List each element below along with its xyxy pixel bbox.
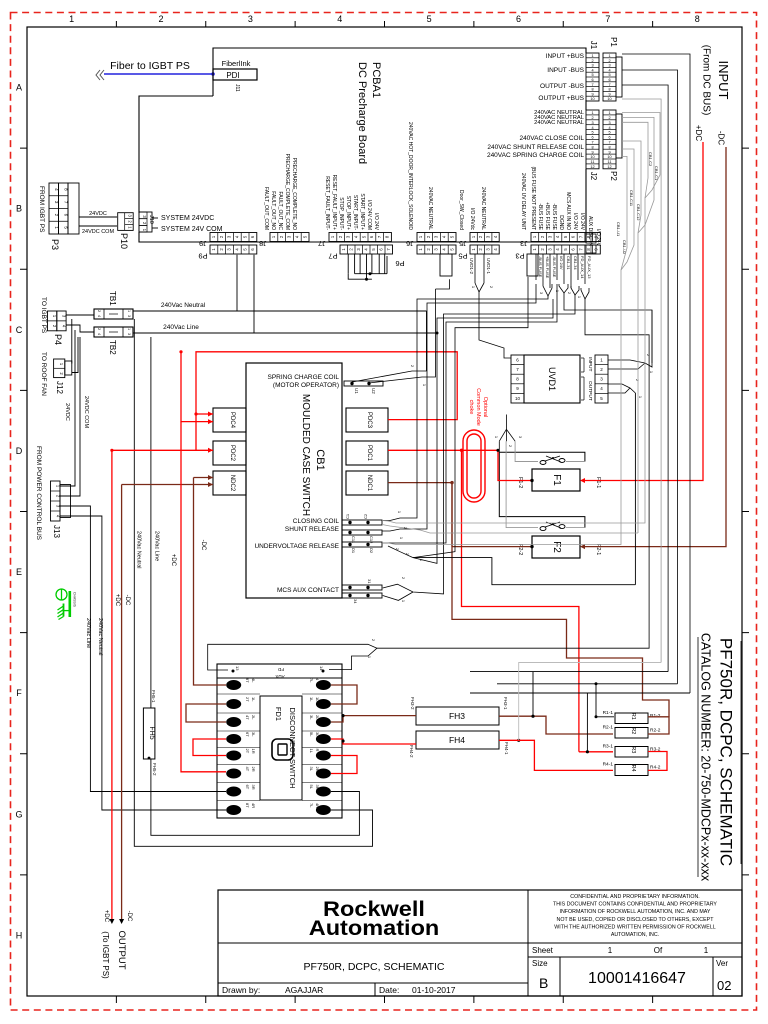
optional common mode choke (463, 430, 485, 502)
svg-text:R1-2: R1-2 (650, 713, 661, 719)
svg-text:AGAJJAR: AGAJJAR (285, 985, 323, 995)
svg-text:FAULT_OUT_NO: FAULT_OUT_NO (270, 191, 276, 230)
svg-text:Drawn by:: Drawn by: (222, 985, 260, 995)
svg-text:4: 4 (591, 68, 593, 72)
svg-text:AUTOMATION, INC.: AUTOMATION, INC. (611, 932, 659, 938)
svg-text:-BUS FUSE: -BUS FUSE (552, 256, 557, 278)
svg-text:CB1-34: CB1-34 (573, 256, 578, 270)
svg-text:START_INPUT-: START_INPUT- (352, 195, 358, 230)
wire maroon NDC2 pin1 from left (194, 477, 214, 479)
svg-text:FAULT_OUT_NC: FAULT_OUT_NC (277, 191, 283, 230)
system 24VDC labels (152, 217, 158, 219)
svg-text:12: 12 (590, 165, 594, 169)
disconnect switch FD1 outline (217, 664, 342, 818)
svg-text:H: H (16, 930, 23, 940)
svg-text:2R: 2R (251, 767, 256, 772)
svg-text:Date:: Date: (379, 985, 399, 995)
svg-text:FH5-2: FH5-2 (152, 763, 157, 776)
svg-text:CB1-C2: CB1-C2 (648, 152, 653, 167)
svg-text:11: 11 (591, 160, 595, 164)
svg-text:-DC: -DC (124, 595, 130, 606)
wire FD aux cable from P3 (377, 299, 649, 648)
svg-text:(To IGBT PS): (To IGBT PS) (101, 931, 110, 979)
title block left row lines (218, 942, 528, 944)
F2 bypass link with cut symbol (499, 452, 585, 527)
wire black FH3 junction up (532, 672, 534, 717)
wire maroon NDC1 right (388, 483, 452, 546)
svg-text:OUTPUT +BUS: OUTPUT +BUS (538, 95, 584, 102)
svg-text:R3-1: R3-1 (603, 744, 614, 750)
svg-text:J11: J11 (234, 84, 240, 92)
svg-text:4R: 4R (315, 803, 320, 808)
svg-text:FD_AUX_14: FD_AUX_14 (580, 256, 585, 279)
connector P10 (118, 213, 134, 231)
svg-text:J5: J5 (459, 239, 467, 248)
svg-text:8: 8 (591, 145, 593, 149)
svg-text:1: 1 (608, 111, 610, 115)
svg-text:R4: R4 (630, 764, 636, 771)
svg-text:STOP_INPUT-: STOP_INPUT- (338, 197, 344, 230)
svg-text:10: 10 (590, 97, 594, 101)
svg-text:MCS AUX CONTACT: MCS AUX CONTACT (277, 587, 339, 594)
svg-text:1: 1 (127, 328, 131, 330)
title block outline (218, 890, 742, 996)
svg-text:SYSTEM 24VDC: SYSTEM 24VDC (161, 215, 214, 222)
wire F2 black frame bottom (413, 558, 635, 585)
wire J2 P2 coil wires to chevrons (622, 113, 660, 149)
chevron merge I O 24V CB1-31 pair (559, 284, 568, 293)
svg-text:P4: P4 (53, 334, 63, 345)
svg-text:P9: P9 (198, 252, 207, 261)
svg-text:R2-2: R2-2 (650, 728, 661, 734)
connector J10 (139, 212, 152, 232)
svg-text:FH4: FH4 (449, 735, 465, 745)
svg-text:SPRING CHARGE COIL: SPRING CHARGE COIL (267, 374, 339, 381)
svg-text:1L: 1L (251, 697, 256, 702)
svg-text:I/O 24Vdc: I/O 24Vdc (469, 208, 475, 231)
svg-text:+DC: +DC (170, 554, 176, 567)
svg-text:TO IGBT PS: TO IGBT PS (40, 297, 47, 334)
svg-text:MCS AUX IN NO: MCS AUX IN NO (565, 192, 571, 230)
svg-text:5: 5 (591, 73, 593, 77)
UVD1 right pins (595, 355, 608, 403)
svg-text:6: 6 (608, 136, 610, 140)
svg-text:4: 4 (337, 14, 342, 24)
svg-text:1L: 1L (309, 697, 314, 702)
svg-text:J7: J7 (318, 239, 326, 248)
svg-text:Ver: Ver (716, 959, 728, 968)
svg-text:PDC3: PDC3 (366, 412, 372, 429)
svg-text:10: 10 (607, 97, 611, 101)
chevron merge -BUS FUSE pair (543, 284, 552, 296)
svg-text:P3: P3 (515, 252, 524, 261)
moulded case switch CB1 (246, 363, 342, 598)
svg-text:FH5: FH5 (148, 726, 155, 739)
svg-text:8: 8 (608, 145, 610, 149)
svg-text:CB1-U1: CB1-U1 (616, 222, 621, 237)
svg-text:CB1: CB1 (314, 449, 326, 470)
svg-text:8: 8 (608, 88, 610, 92)
svg-text:3: 3 (127, 315, 131, 317)
svg-text:1R: 1R (251, 749, 256, 754)
sheet row (528, 942, 742, 944)
UV delay unit UVD1 (524, 355, 580, 403)
chevron merge CB1-34 pair (571, 286, 579, 295)
undervoltage release terminals D1 D2 (342, 542, 382, 547)
svg-text:10: 10 (607, 155, 611, 159)
wire black feed to R1 (497, 683, 678, 685)
svg-text:P1: P1 (609, 37, 618, 47)
svg-text:Optional: Optional (482, 397, 488, 418)
terminal block TB2 (94, 327, 133, 337)
svg-text:3L: 3L (309, 715, 314, 720)
svg-text:4R: 4R (251, 803, 256, 808)
svg-text:P7: P7 (328, 252, 337, 261)
svg-text:2L: 2L (251, 715, 256, 720)
svg-text:I/O 24V COM: I/O 24V COM (366, 200, 372, 230)
svg-text:1: 1 (127, 310, 131, 312)
svg-text:1: 1 (608, 946, 613, 955)
svg-text:DC Precharge Board: DC Precharge Board (356, 62, 368, 164)
svg-text:24VDC: 24VDC (89, 211, 107, 217)
svg-text:J13: J13 (52, 525, 61, 538)
svg-text:PF750R, DCPC, SCHEMATIC: PF750R, DCPC, SCHEMATIC (717, 638, 736, 866)
svg-text:7L: 7L (309, 678, 314, 683)
svg-text:FD1: FD1 (274, 707, 283, 721)
svg-text:CB1-31: CB1-31 (566, 256, 571, 270)
svg-text:FH4-2: FH4-2 (409, 745, 414, 758)
svg-text:UVD1-2: UVD1-2 (469, 258, 474, 275)
svg-text:4: 4 (591, 126, 593, 130)
svg-text:INPUT: INPUT (716, 61, 731, 100)
svg-text:2: 2 (591, 59, 593, 63)
size cell (559, 957, 561, 996)
svg-text:Size: Size (532, 959, 548, 968)
FD1 right terminals (316, 680, 331, 690)
svg-text:240Vac Line: 240Vac Line (85, 618, 91, 648)
svg-text:C: C (16, 325, 23, 335)
svg-text:3L: 3L (251, 732, 256, 737)
svg-text:6: 6 (591, 136, 593, 140)
PCBA1 DC Precharge Board outline (213, 48, 586, 96)
column tick marks top/bottom (115, 21, 117, 27)
wire P1 output-bus down to FH3 node (622, 85, 668, 672)
svg-text:8T: 8T (245, 678, 250, 683)
wire +DC output (196, 449, 213, 451)
CB1 terminal PDC2 (213, 441, 246, 465)
svg-text:7: 7 (608, 140, 610, 144)
svg-text:INPUT +BUS: INPUT +BUS (546, 53, 585, 60)
svg-text:Automation: Automation (309, 916, 440, 940)
wire light gray FH4 junction up (519, 663, 661, 741)
svg-text:9: 9 (591, 92, 593, 96)
wire P4 to TB2 jog (66, 325, 94, 332)
wire -DC input down to F2 (585, 147, 726, 547)
svg-text:-DC: -DC (200, 540, 206, 551)
svg-text:2T: 2T (245, 697, 250, 702)
wire P1 input+bus down to R3 feed (622, 54, 690, 693)
svg-text:240Vac Neutral: 240Vac Neutral (97, 618, 103, 656)
svg-text:J1: J1 (589, 41, 598, 50)
svg-text:F1-2: F1-2 (517, 477, 523, 488)
wire maroon R1-R2 jumper (648, 717, 669, 734)
svg-text:2L: 2L (315, 715, 320, 720)
svg-text:240VAC NEUTRAL: 240VAC NEUTRAL (427, 187, 433, 230)
svg-text:I/O 24V: I/O 24V (559, 256, 564, 270)
svg-text:-BUS FUSE: -BUS FUSE (537, 203, 543, 230)
svg-text:240VAC HOT_DOOR_INTERLOCK_SOLE: 240VAC HOT_DOOR_INTERLOCK_SOLENOID (407, 122, 413, 230)
drawn-by row (374, 983, 376, 996)
wire red R3-R4 jumper (648, 752, 667, 771)
svg-text:2: 2 (159, 14, 164, 24)
wire P9 pins down to 240Vac rails (236, 255, 238, 311)
FD1 padlock icon (272, 739, 293, 760)
wire chevron merge CB1-C1 C2 to closing coil (382, 148, 660, 523)
Rockwell Automation logo (309, 897, 440, 940)
svg-text:I/O 24V: I/O 24V (373, 213, 379, 231)
svg-text:THIS DOCUMENT CONTAINS CONFIDE: THIS DOCUMENT CONTAINS CONFIDENTIAL AND … (553, 902, 717, 908)
svg-text:3L: 3L (315, 732, 320, 737)
svg-text:TO ROOF FAN: TO ROOF FAN (40, 352, 47, 396)
wire +DC input down to F1 (585, 142, 703, 481)
svg-text:OUTPUT: OUTPUT (587, 381, 593, 401)
wire P5 down to UVD1 (474, 254, 476, 283)
svg-text:E: E (16, 567, 22, 577)
wire red main to R3 (579, 751, 613, 753)
wire bus P3 pin1 to P1 output+bus (382, 296, 548, 521)
wire black feed to R3 junction (470, 692, 690, 694)
svg-text:7: 7 (605, 14, 610, 24)
svg-text:02: 02 (717, 978, 731, 993)
svg-text:4: 4 (97, 315, 101, 317)
svg-text:NOT BE USED, COPIED OR DISCLOS: NOT BE USED, COPIED OR DISCLOSED TO OTHE… (557, 917, 715, 923)
wire CB1-31 34 route to MCS aux (383, 295, 575, 594)
svg-text:11: 11 (608, 160, 612, 164)
resistor R3 (615, 747, 648, 758)
svg-text:3: 3 (127, 333, 131, 335)
svg-text:Door_SW_Closed: Door_SW_Closed (458, 190, 464, 230)
svg-text:TB1: TB1 (108, 291, 117, 306)
wire red PDC1 through choke to F1 (388, 450, 532, 480)
svg-text:DGND: DGND (558, 215, 564, 230)
svg-text:CLOSING COIL: CLOSING COIL (293, 518, 340, 525)
svg-text:FD_AUX_13: FD_AUX_13 (587, 256, 592, 279)
svg-text:9: 9 (608, 92, 610, 96)
svg-text:FAULT_OUT_COM: FAULT_OUT_COM (263, 187, 269, 230)
svg-text:INPUT -BUS: INPUT -BUS (547, 67, 584, 74)
svg-text:J3: J3 (520, 239, 528, 248)
wire UVD1 output right chevrons (608, 384, 635, 393)
wire red FD1 right jumper rows 5-6 (331, 756, 357, 774)
svg-text:24VDC COM: 24VDC COM (82, 229, 115, 235)
chassis ground symbol (56, 589, 70, 620)
svg-text:4L: 4L (251, 678, 256, 683)
svg-text:Fiber to IGBT PS: Fiber to IGBT PS (110, 60, 190, 72)
svg-text:FH3: FH3 (449, 711, 465, 721)
svg-text:1: 1 (69, 14, 74, 24)
svg-text:G: G (15, 809, 22, 819)
svg-text:240Vac Neutral: 240Vac Neutral (136, 531, 142, 569)
svg-text:10001416647: 10001416647 (588, 970, 686, 987)
svg-text:R3: R3 (630, 746, 636, 753)
wire J12 to TB1 (71, 319, 73, 364)
svg-text:RESET_FAULT_INPUT+: RESET_FAULT_INPUT+ (331, 175, 337, 230)
resistor R4 (615, 765, 648, 776)
svg-text:24VDC COM: 24VDC COM (83, 396, 89, 429)
svg-text:D: D (16, 446, 23, 456)
fuse F1 (532, 469, 580, 491)
svg-text:3: 3 (248, 14, 253, 24)
svg-text:1L: 1L (315, 697, 320, 702)
svg-text:P10: P10 (119, 233, 129, 249)
FD1 row divider lines (217, 693, 260, 695)
svg-text:UNDERVOLTAGE RELEASE: UNDERVOLTAGE RELEASE (254, 543, 339, 550)
wire maroon -DC down to FD1 row1 (194, 478, 227, 686)
svg-text:D1: D1 (351, 548, 356, 554)
svg-text:8T: 8T (245, 803, 250, 808)
wire J13 pin1 up to TB area (60, 330, 75, 486)
svg-text:P3: P3 (50, 239, 60, 250)
svg-text:SYSTEM 24V COM: SYSTEM 24V COM (161, 226, 223, 233)
CB1 terminal PDC3 (346, 408, 388, 432)
svg-text:PRECHARGE_COMPLETE_COM: PRECHARGE_COMPLETE_COM (284, 154, 290, 230)
title block vertical divider (527, 890, 529, 996)
wire maroon FD1 left jumper rows 2-3 (186, 704, 226, 722)
svg-text:6: 6 (608, 78, 610, 82)
wire J13 pin3 down to FD1 row7 left (60, 506, 226, 792)
svg-text:WITH THE AUTHORIZED WRITTEN PE: WITH THE AUTHORIZED WRITTEN PERMISSION O… (554, 924, 716, 930)
svg-text:AUX: AUX (275, 674, 284, 679)
svg-text:2: 2 (97, 310, 101, 312)
fuse holder FH3 (416, 707, 499, 725)
svg-text:2T: 2T (245, 749, 250, 754)
svg-text:C2: C2 (363, 513, 368, 519)
svg-text:FROM POWER CONTROL BUS: FROM POWER CONTROL BUS (35, 446, 42, 541)
UVD1 left pins (511, 355, 524, 403)
MCS aux contact terminals (342, 585, 382, 590)
wire J13 pin4 down to FD1 row8 left (60, 516, 226, 810)
wire maroon FH3-1 to R2 (499, 716, 613, 734)
wire bus fuse present loop (413, 277, 528, 558)
svg-text:PRECHARGE_COMPLETE_NO: PRECHARGE_COMPLETE_NO (291, 158, 297, 230)
svg-text:P5: P5 (458, 252, 467, 261)
wire bus P3 pin2 to P1 output-bus (382, 284, 536, 531)
wire 240VAC red rail to PDC4 (196, 352, 457, 451)
wire bus P3 pin3 to P1 input-bus (413, 299, 553, 563)
svg-text:F2: F2 (551, 541, 562, 553)
svg-text:F2-2: F2-2 (517, 544, 523, 555)
svg-text:PCBA1: PCBA1 (370, 62, 382, 98)
wire UVD1 right down along F boxes (634, 393, 636, 585)
svg-text:2: 2 (97, 328, 101, 330)
wire chevron above F1 (499, 429, 515, 441)
svg-text:240VAC CLOSE COIL: 240VAC CLOSE COIL (519, 135, 584, 142)
svg-text:9: 9 (591, 150, 593, 154)
svg-text:3: 3 (608, 121, 610, 125)
svg-text:AUX DISC IN: AUX DISC IN (587, 216, 593, 246)
svg-text:(MOTOR OPERATOR): (MOTOR OPERATOR) (273, 382, 339, 389)
svg-text:240VAC NEUTRAL: 240VAC NEUTRAL (480, 187, 486, 230)
svg-text:INPUT: INPUT (587, 357, 593, 371)
FD1 inner box (260, 696, 302, 800)
svg-text:FH3-2: FH3-2 (410, 697, 415, 710)
svg-text:5: 5 (591, 131, 593, 135)
chevron split FD aux 13 14 (208, 644, 377, 670)
svg-text:J9: J9 (199, 239, 207, 248)
svg-text:+DC: +DC (103, 910, 109, 923)
svg-text:STOP_INPUT+: STOP_INPUT+ (345, 196, 351, 230)
wire maroon FD1 right jumper rows 1-2 (331, 685, 357, 704)
svg-text:SHUNT RELEASE: SHUNT RELEASE (285, 526, 340, 533)
svg-text:4: 4 (97, 333, 101, 335)
spring charge coil terminals U1 U2 (344, 381, 383, 386)
svg-text:2: 2 (608, 59, 610, 63)
svg-text:7: 7 (608, 83, 610, 87)
wire I O 24V to UVD1 input (564, 293, 652, 363)
svg-text:R1: R1 (630, 713, 636, 720)
wire P1 output+bus down to FH4 node gray (622, 99, 661, 663)
wire TB2 240Vac Line (133, 332, 437, 334)
svg-text:I/O 24V: I/O 24V (572, 213, 578, 231)
svg-text:F: F (16, 688, 22, 698)
chevron merge FD AUX pair (581, 288, 589, 299)
svg-text:1: 1 (704, 946, 709, 955)
wire chevron merge CB1-U1 U2 down (382, 218, 634, 545)
svg-text:D2: D2 (369, 548, 374, 554)
svg-text:J6: J6 (406, 239, 414, 248)
wire -DC output (122, 484, 213, 486)
closing coil terminals C1 C2 (342, 520, 382, 525)
svg-text:240VAC SHUNT RELEASE COIL: 240VAC SHUNT RELEASE COIL (487, 144, 584, 151)
svg-text:6T: 6T (245, 785, 250, 790)
svg-text:R4-1: R4-1 (603, 762, 614, 768)
svg-text:B: B (539, 975, 548, 991)
F1 bypass link with cut symbol (499, 452, 585, 461)
row tick marks left/right (20, 147, 27, 149)
wire P3 bundle down with chevrons (535, 254, 537, 280)
svg-text:4: 4 (608, 126, 610, 130)
svg-text:P2: P2 (609, 171, 618, 181)
svg-text:13: 13 (235, 666, 240, 671)
wire red FD1 row4 right to FH4-2 (331, 739, 416, 744)
FD1 left terminals (226, 680, 241, 690)
svg-text:240VAC SPRING CHARGE COIL: 240VAC SPRING CHARGE COIL (487, 152, 584, 159)
svg-text:8: 8 (695, 14, 700, 24)
svg-text:I/O 24V: I/O 24V (579, 213, 585, 231)
svg-text:4: 4 (608, 68, 610, 72)
svg-text:J2: J2 (589, 172, 598, 181)
svg-text:U2: U2 (371, 388, 376, 394)
svg-text:3: 3 (608, 64, 610, 68)
svg-text:12: 12 (607, 165, 611, 169)
svg-text:MOULDED CASE SWITCH: MOULDED CASE SWITCH (300, 394, 311, 516)
svg-text:Common Mode: Common Mode (475, 388, 481, 426)
wire 24VDC P3 to P10 (79, 216, 117, 218)
J2 aux pin cells (586, 234, 596, 243)
svg-text:7L: 7L (309, 803, 314, 808)
svg-text:1L: 1L (309, 749, 314, 754)
svg-text:34: 34 (353, 599, 358, 604)
wire maroon FD1 row3 to FH3-2 (331, 716, 416, 722)
resistor R2 (615, 728, 648, 739)
svg-text:TB2: TB2 (108, 340, 117, 355)
svg-text:RESET_FAULT_INPUT-: RESET_FAULT_INPUT- (324, 176, 330, 230)
svg-text:4T: 4T (245, 767, 250, 772)
svg-text:CHASSIS: CHASSIS (73, 592, 77, 608)
wire maroon F2 to choke down (452, 546, 532, 548)
svg-text:2: 2 (608, 116, 610, 120)
wire J13 pin2 up to TB area (60, 337, 80, 496)
